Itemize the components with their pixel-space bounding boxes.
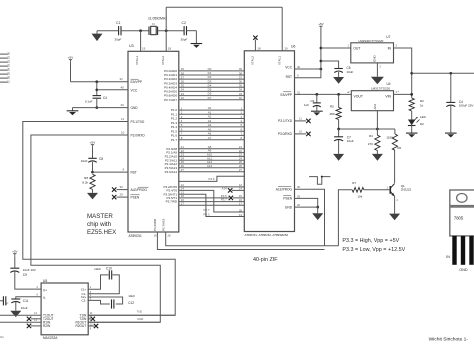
wire PSEN to GND [295,198,318,207]
text corner fragment [0,335,4,339]
svg-text:RxD: RxD [138,317,145,321]
wire T2OUT stub [27,317,41,321]
wire [187,31,197,44]
+5V supply [318,22,323,30]
wire R6 to Q1 collector [394,150,396,183]
pin 3 U4 [396,89,400,94]
wire RXD net [31,135,160,322]
wire P2.7 net [166,187,258,214]
pin 11 P3.1/TXD U3 [121,117,145,124]
node [410,72,413,75]
wire D7 net [164,96,259,102]
wire ZIF RXD stub [295,132,311,136]
svg-text:1150: 1150 [386,135,393,139]
svg-text:C4: C4 [103,96,107,100]
svg-text:XTAL2: XTAL2 [251,56,255,65]
pin 18 U3 [168,47,172,51]
node [376,128,379,131]
wire [92,162,94,172]
svg-text:18: 18 [257,47,261,51]
svg-text:10uF: 10uF [347,139,354,143]
wire to C5 [321,61,339,68]
svg-text:ALE/PROG: ALE/PROG [131,188,148,192]
svg-text:P1.7: P1.7 [171,138,178,142]
svg-text:LM317/TO220: LM317/TO220 [371,86,390,90]
resistor R2 [409,98,424,111]
node [337,128,340,131]
pin 3 U7 [396,43,398,47]
wire P2.6 net jog [179,176,245,181]
ground [67,111,79,115]
svg-text:D0: D0 [7,51,11,55]
pin 28 U3 [168,234,172,238]
text author [429,337,469,343]
wire D3 net [164,79,259,85]
svg-text:U6: U6 [291,45,295,49]
svg-text:C1: C1 [116,21,120,25]
svg-text:27: 27 [239,168,243,172]
svg-text:EA/VPP: EA/VPP [131,80,143,84]
svg-text:OUT: OUT [353,47,360,51]
op-amp U6 40-pin ZIF socket body [244,45,295,238]
pin RST ZIF [286,74,299,79]
wire P2.7/A15 long net [166,232,339,246]
resistor R6 [386,129,401,150]
pin 2 U7 GND stub [377,63,381,77]
svg-text:C9: C9 [23,273,27,277]
wire T1IN TxD [88,309,175,315]
wire [121,30,149,32]
svg-text:16: 16 [154,234,158,238]
svg-text:P3.0/RXD: P3.0/RXD [131,134,146,138]
svg-text:P3.3 = Low, Vpp = +12.5V: P3.3 = Low, Vpp = +12.5V [342,247,405,253]
svg-text:+5V: +5V [90,141,95,145]
svg-text:D7: D7 [7,79,11,83]
wire [97,30,118,32]
svg-text:R2: R2 [420,99,424,103]
svg-text:29: 29 [297,194,301,198]
svg-text:40: 40 [297,65,301,69]
capacitor C5 [334,66,353,74]
wire bus stub L4 [0,67,11,71]
wire base [364,185,391,189]
wire [93,171,129,173]
text Vpp note line 2 [342,247,405,253]
svg-text:C11: C11 [23,299,29,303]
svg-text:13: 13 [239,213,243,217]
capacitor C1 [115,21,122,42]
svg-text:EA/VPP: EA/VPP [280,93,292,97]
wire D4 net [164,83,259,89]
pin EA/VPP ZIF [280,90,300,96]
svg-text:19: 19 [284,47,288,51]
ground [92,31,103,41]
wire A8 net [166,145,257,151]
svg-text:ALE/PROG: ALE/PROG [276,188,293,192]
resistor R5 [330,94,342,129]
svg-text:V-: V- [43,296,46,300]
svg-text:P3.1/TXD: P3.1/TXD [278,119,293,123]
svg-text:10: 10 [299,130,303,134]
regulator 7805 package drawing [446,190,474,272]
svg-text:GND: GND [373,55,377,63]
node [95,106,98,109]
svg-text:A14: A14 [222,186,228,190]
svg-text:19: 19 [142,47,146,51]
svg-text:IN: IN [446,255,450,259]
wire A4 net [171,123,253,129]
wire A10 net [165,153,259,159]
+5V supply [12,250,17,258]
wire bus stub L7 [0,79,11,83]
op-amp U7 LM2940 body [351,35,394,63]
svg-text:AT89C51, AT89C52, AT89S8252: AT89C51, AT89C52, AT89S8252 [245,233,289,237]
pin 31 EA/VPP U3 [120,77,143,84]
svg-text:280: 280 [330,112,335,116]
svg-text:GND: GND [285,205,293,209]
wire D6 net [164,92,259,98]
svg-text:P3.1/TXD: P3.1/TXD [131,120,146,124]
capacitor C7 [334,129,354,143]
wire D5 net [164,88,259,94]
wire R1IN [0,318,41,322]
wire A1 net [171,110,253,116]
svg-text:U1: U1 [0,335,4,339]
diode LED D2 [408,115,427,126]
svg-text:20: 20 [121,103,125,107]
svg-text:PSEN: PSEN [283,197,292,201]
svg-text:D4: D4 [7,67,11,71]
wire U7 IN [394,48,412,98]
svg-text:P3.0/RXD: P3.0/RXD [278,132,293,136]
capacitor C9 [10,268,36,277]
wire [73,108,129,111]
wire P3.6/WR long net [157,232,324,250]
ground [372,151,383,161]
wire [16,292,41,298]
svg-text:V+: V+ [43,289,47,293]
svg-text:R7: R7 [352,181,356,185]
wire [411,126,413,133]
svg-text:7805: 7805 [454,215,464,220]
svg-text:XTAL1: XTAL1 [135,56,139,65]
svg-text:IN: IN [388,47,392,51]
wire [112,195,128,199]
svg-text:GND: GND [459,268,468,272]
wire R1OUT RxD [88,317,160,326]
text 40-pin ZIF [253,257,278,263]
svg-text:+5V: +5V [68,56,73,60]
node [95,80,98,83]
svg-text:VOUT: VOUT [354,94,363,98]
svg-text:10uF: 10uF [81,159,88,163]
wire [96,82,98,96]
svg-text:C2-: C2- [81,299,86,303]
wire GND [295,207,318,213]
pin 9 RST U3 [123,168,137,175]
svg-text:RST: RST [131,171,137,175]
svg-text:R6: R6 [397,146,401,150]
wire A5 net [171,127,253,133]
wire A6 net [171,132,253,138]
resistor R8 [82,174,95,189]
wire A9 net [166,149,257,155]
svg-text:29: 29 [120,193,124,197]
wire A2 net [171,115,253,121]
wire A7 net [171,136,253,142]
+5V supply [90,141,95,149]
+5V supply [68,56,73,64]
svg-text:30pF: 30pF [115,38,122,42]
svg-text:P2.6: P2.6 [209,177,215,181]
capacitor C10 loop [88,267,119,294]
svg-text:+5V: +5V [318,22,323,26]
wire [450,106,452,133]
wire P3.2/INT0 net [163,183,260,189]
svg-text:10uF: 10uF [128,294,135,298]
svg-text:XTAL1: XTAL1 [277,56,281,65]
pin 40 VCC U3 [121,85,138,92]
ground [191,44,203,48]
svg-text:P2.7/A15: P2.7/A15 [161,218,165,231]
svg-text:28: 28 [168,234,172,238]
svg-text:30: 30 [120,185,124,189]
svg-text:P3.7/RD: P3.7/RD [166,200,178,204]
svg-text:14: 14 [239,187,243,191]
pin 29 PSEN U3 [120,193,140,200]
svg-text:18: 18 [168,47,172,51]
svg-text:C6: C6 [311,99,315,103]
svg-text:8.2k: 8.2k [82,181,88,185]
resistor R7 [352,181,364,199]
node [315,93,318,96]
svg-text:P0.7/AD7: P0.7/AD7 [164,98,177,102]
node [91,171,94,174]
capacitor C11 [11,299,28,310]
wire A0 net [171,106,253,112]
wire R2OUT stub [88,324,98,331]
node [165,29,168,32]
svg-text:MASTER: MASTER [87,213,113,220]
svg-text:LED: LED [420,115,427,119]
node [320,68,323,71]
wire T2IN stub [88,316,95,322]
svg-text:1uF: 1uF [304,103,309,107]
op-amp U4 LM317 body [351,82,393,111]
ground [371,77,384,85]
svg-text:D1: D1 [7,55,11,59]
wire bus stub L1 [0,55,11,59]
wire ADJ rail [339,128,395,130]
wire [112,187,128,191]
wire A3 net [171,119,253,125]
node [410,93,413,96]
wire D0 net [164,67,259,73]
wire [411,111,413,120]
ground [333,72,344,84]
svg-text:XTAL2: XTAL2 [161,56,165,65]
svg-text:10uF: 10uF [347,70,354,74]
svg-text:C10: C10 [106,267,112,271]
wire ZIF TXD stub [295,119,311,123]
node [449,72,452,75]
wire XTAL1 stub [140,31,142,52]
svg-text:100uF 25V: 100uF 25V [459,104,474,108]
transistor Q1 2N2222 [390,184,411,197]
node [320,60,323,63]
svg-text:1k: 1k [420,103,424,107]
svg-text:LM2940CT/TO220: LM2940CT/TO220 [359,39,384,43]
wire input rail [412,72,474,74]
op-amp U5 MAX232 body [41,279,88,340]
svg-text:EZ55.HEX: EZ55.HEX [87,229,116,236]
capacitor C8 [81,157,104,163]
wire [338,190,352,246]
pin GND ZIF [285,203,301,209]
svg-text:11: 11 [121,117,124,121]
node [316,206,319,209]
svg-text:32: 32 [239,96,243,100]
pin 10 P3.0/RXD U3 [121,131,145,138]
wire RST [295,29,321,78]
wire VCC [295,68,321,70]
ground [445,133,457,137]
op-amp U3 AT89C51 master MCU body [128,44,179,238]
wire [96,98,98,107]
wire A14 net [165,168,259,174]
pin PSEN ZIF [283,194,300,200]
wire P3.5 row [166,194,257,200]
svg-text:GND: GND [131,106,139,110]
node [95,88,98,91]
capacitor edge fragment [0,296,9,305]
text MASTER note [87,213,116,236]
svg-text:17: 17 [239,202,243,206]
wire XTAL2 stub [165,7,167,51]
node [337,93,340,96]
wire R2IN stub [27,324,41,328]
svg-text:P3.6/WR: P3.6/WR [153,218,157,231]
svg-text:30pF: 30pF [181,38,188,42]
ground [389,214,400,221]
svg-text:C2: C2 [182,21,186,25]
svg-text:10uF 10V: 10uF 10V [23,268,36,272]
svg-text:D2: D2 [7,59,11,63]
ground [87,189,98,199]
svg-text:A7: A7 [208,136,212,140]
svg-text:P2.6/A14: P2.6/A14 [165,170,178,174]
svg-text:270: 270 [368,142,373,146]
ground [312,213,323,220]
svg-text:D2: D2 [420,122,424,126]
svg-text:30: 30 [297,185,301,189]
text Vpp note line 1 [342,238,399,244]
capacitor C2 [181,21,188,42]
svg-text:P3.3: P3.3 [204,212,210,216]
pin 30 ALE/PROG U3 [120,185,149,192]
crystal X1 [148,17,167,35]
svg-text:+5V: +5V [12,250,17,254]
svg-text:11.0592MHz: 11.0592MHz [148,17,167,21]
svg-text:R8: R8 [84,176,88,180]
pin VCC ZIF [285,65,300,69]
svg-text:2N2222: 2N2222 [401,188,412,192]
wire top rail to ZIF XTAL1 [166,7,282,51]
wire [97,89,128,91]
svg-text:U3: U3 [129,44,134,48]
svg-text:AT89C51: AT89C51 [129,234,142,238]
wire A12 net [165,160,259,166]
pin P3.1/TXD ZIF [278,117,302,123]
pin 19 U3 [142,47,146,51]
pin ALE/PROG ZIF [276,185,301,191]
wire A11 net [165,156,259,162]
capacitor C12 loop [88,294,135,309]
wire bus stub L2 [0,59,11,63]
svg-text:R2OUT: R2OUT [75,324,86,328]
wire P3.3 net [163,191,260,219]
svg-text:27: 27 [181,168,185,172]
svg-text:D3: D3 [7,63,11,67]
svg-text:D6: D6 [7,75,11,79]
pin 16 U3 [154,234,158,238]
svg-text:VCC: VCC [285,65,292,69]
wire [14,257,16,268]
wire [15,272,41,290]
svg-text:TxD: TxD [137,309,143,313]
pin P3.0/RXD ZIF [278,130,303,136]
svg-text:31: 31 [297,90,301,94]
wire P3.6 row [166,198,259,204]
wire jog [309,176,330,185]
wire EA/VPP to LM317 VOUT [295,90,352,94]
svg-text:R5: R5 [330,104,334,108]
svg-text:40: 40 [121,85,125,89]
capacitor C3 100uF [446,73,473,107]
svg-text:VCC: VCC [131,88,138,92]
wire [71,63,129,82]
svg-text:10: 10 [121,131,125,135]
svg-text:U7: U7 [386,35,390,39]
ground [333,140,344,161]
capacitor C4 [85,96,107,104]
svg-text:32: 32 [181,96,185,100]
wire ZIF XTAL2 stub [253,36,261,51]
svg-text:40-pin ZIF: 40-pin ZIF [253,257,278,263]
wire [15,302,17,311]
pin 2 U4 [348,90,350,94]
svg-text:R2IN: R2IN [43,324,51,328]
wire D1 net [164,71,259,77]
wire D2 net [164,75,259,81]
svg-text:P3.3 = High, Vpp = +5V: P3.3 = High, Vpp = +5V [342,238,399,244]
svg-text:10k: 10k [357,195,362,199]
wire T1OUT [0,311,41,315]
svg-text:10uF: 10uF [94,267,101,271]
svg-text:17: 17 [181,202,185,206]
svg-text:A13: A13 [207,164,213,168]
svg-text:PSEN: PSEN [131,196,140,200]
wire [92,148,94,158]
wire [158,30,184,32]
wire U4 VIN [394,93,412,95]
wire A13 net [165,164,259,170]
wire bus stub L3 [0,63,11,67]
svg-text:0.1uF: 0.1uF [85,100,93,104]
wire bus stub L0 [0,51,11,55]
svg-text:F: F [7,302,9,306]
svg-text:U5: U5 [43,279,47,283]
